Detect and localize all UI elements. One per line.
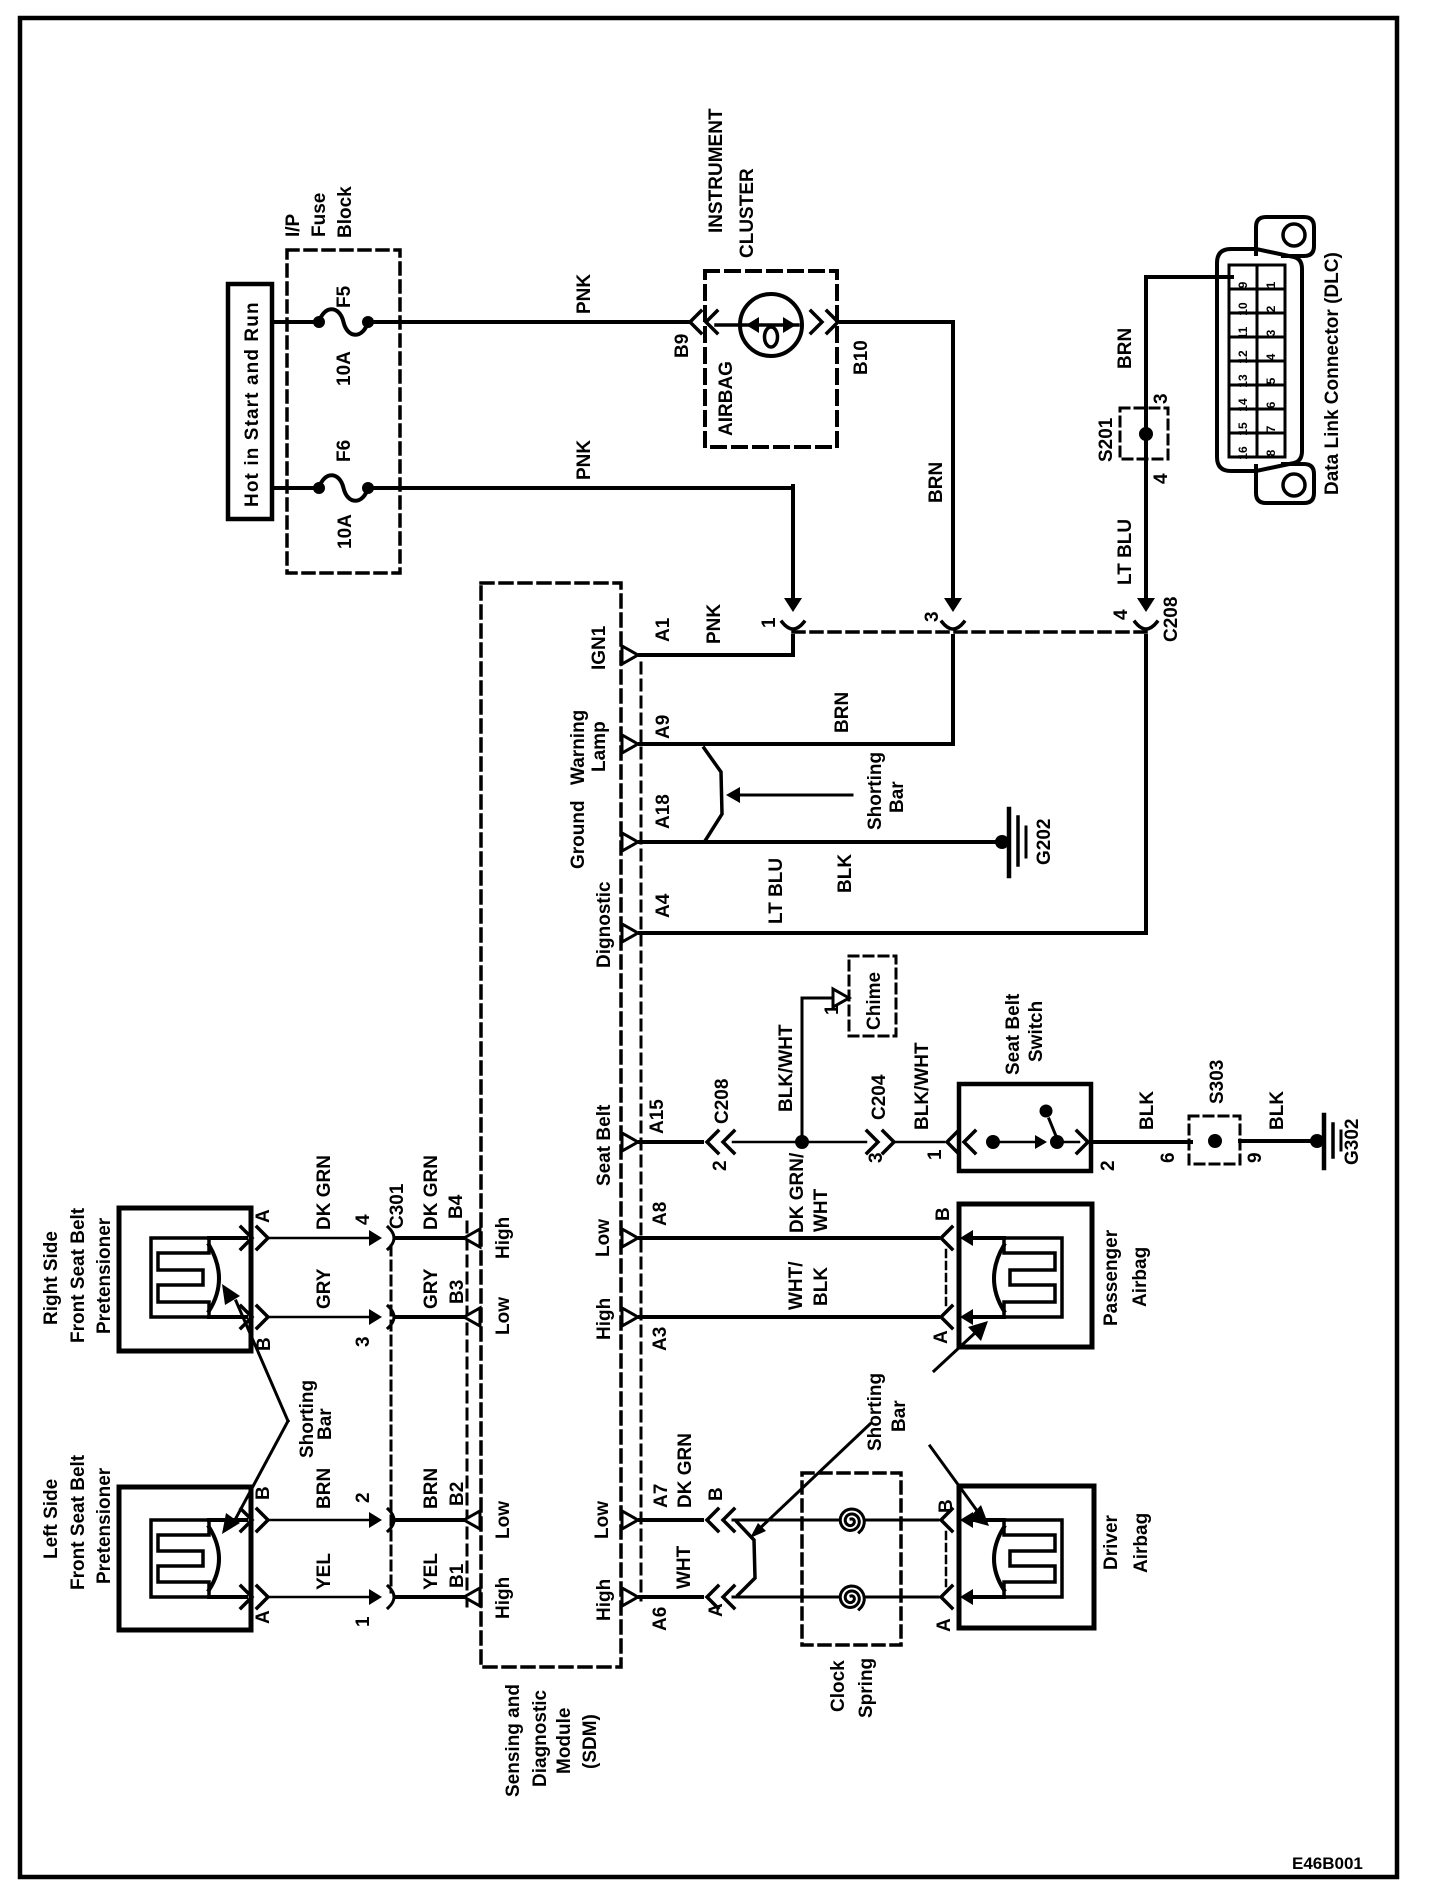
shorting bar at passenger airbag connector: [945, 1250, 948, 1306]
svg-text:A: A: [931, 1330, 952, 1344]
wire GRY: pretensioner B to C301 pin 3: [268, 1316, 371, 1319]
svg-text:(SDM): (SDM): [580, 1714, 601, 1769]
splice S303: [1189, 1116, 1240, 1164]
svg-text:4: 4: [353, 1214, 374, 1225]
svg-text:4: 4: [1111, 609, 1132, 620]
svg-text:PNK: PNK: [574, 440, 595, 480]
svg-text:Low: Low: [493, 1297, 514, 1335]
wire BRN: pretensioner B to C301 pin 2: [268, 1519, 371, 1522]
left pretensioner pin B: [241, 1509, 252, 1531]
svg-text:BLK/WHT: BLK/WHT: [776, 1024, 797, 1112]
svg-text:Lamp: Lamp: [589, 721, 610, 772]
svg-text:5: 5: [1264, 377, 1278, 384]
wire: DLC to S201 splice BRN: [1146, 275, 1232, 279]
SDM pin B3: [464, 1308, 480, 1326]
wire DK GRN/WHT: C208 to C204 with chime splice: [733, 1141, 866, 1144]
svg-text:Seat Belt: Seat Belt: [594, 1104, 615, 1186]
svg-text:C301: C301: [387, 1183, 408, 1229]
svg-text:2: 2: [1264, 305, 1278, 312]
fuse F6 10A: [313, 482, 325, 494]
svg-text:Clock: Clock: [828, 1660, 849, 1712]
svg-text:B4: B4: [446, 1194, 467, 1219]
svg-text:YEL: YEL: [314, 1553, 335, 1590]
svg-text:S303: S303: [1207, 1060, 1228, 1104]
svg-text:WHT/: WHT/: [786, 1261, 807, 1310]
svg-text:10A: 10A: [335, 514, 356, 549]
svg-text:Bar: Bar: [315, 1408, 336, 1440]
svg-text:PNK: PNK: [704, 604, 725, 644]
ground G202: [995, 835, 1009, 849]
right pretensioner squib: [151, 1238, 209, 1317]
Seat Belt Switch box: [959, 1084, 1091, 1171]
svg-text:GRY: GRY: [421, 1268, 442, 1309]
svg-text:BRN: BRN: [926, 462, 947, 503]
svg-text:Low: Low: [592, 1501, 613, 1539]
svg-text:B: B: [933, 1207, 954, 1221]
svg-text:Front Seat Belt: Front Seat Belt: [68, 1207, 89, 1343]
svg-text:Spring: Spring: [856, 1658, 877, 1718]
svg-text:Airbag: Airbag: [1131, 1513, 1152, 1573]
svg-text:9: 9: [1236, 281, 1250, 288]
svg-text:1: 1: [1264, 281, 1278, 288]
svg-text:IGN1: IGN1: [589, 625, 610, 670]
in-line connector C208 lower pin 2: [707, 1131, 718, 1153]
fuse F5 10A: [313, 316, 325, 328]
svg-text:7: 7: [1264, 425, 1278, 432]
wire BRN: B10 to C208 pin 3: [841, 320, 953, 324]
Right pretensioner box: [119, 1208, 251, 1351]
svg-text:B10: B10: [851, 340, 872, 375]
wire PNK: C208 pin1 to SDM A1 IGN1: [791, 636, 795, 655]
svg-text:Driver: Driver: [1101, 1514, 1122, 1570]
in-line connector C301: [390, 1246, 393, 1592]
Driver Airbag box: [959, 1486, 1094, 1628]
clock spring coil upper: [840, 1509, 864, 1532]
svg-text:B1: B1: [447, 1563, 468, 1588]
svg-text:13: 13: [1236, 374, 1250, 388]
svg-text:Passenger: Passenger: [1101, 1229, 1122, 1326]
svg-text:3: 3: [353, 1336, 374, 1347]
wire BRN: C208 pin3 to SDM A9: [951, 636, 955, 744]
wire WHT/BLK: A3 to Passenger Airbag A: [640, 1315, 938, 1319]
svg-text:Bar: Bar: [889, 1400, 910, 1432]
seat belt switch pin 2: [1077, 1131, 1088, 1153]
Passenger Airbag box: [959, 1204, 1092, 1347]
wire: Hot box to fuse F5: [272, 320, 315, 324]
Driver Airbag connector pin A: [941, 1586, 952, 1608]
svg-text:Airbag: Airbag: [1130, 1247, 1151, 1307]
connector pin B10: [811, 311, 822, 333]
driver airbag squib: [1004, 1520, 1062, 1597]
svg-text:Shorting: Shorting: [865, 752, 886, 830]
svg-text:2: 2: [1098, 1160, 1119, 1171]
svg-text:PNK: PNK: [574, 274, 595, 314]
SDM pin A9 Warning Lamp: [622, 735, 638, 753]
svg-text:Module: Module: [554, 1708, 575, 1775]
svg-text:E46B001: E46B001: [1292, 1854, 1363, 1873]
svg-text:F6: F6: [334, 440, 355, 462]
svg-text:Chime: Chime: [864, 972, 885, 1030]
svg-text:LT BLU: LT BLU: [1115, 519, 1136, 585]
svg-text:A: A: [706, 1603, 727, 1617]
svg-text:C204: C204: [869, 1074, 890, 1120]
svg-text:Diagnostic: Diagnostic: [530, 1689, 551, 1787]
svg-text:A18: A18: [653, 794, 674, 829]
seat belt switch pin 1: [947, 1131, 958, 1153]
Chime pin 1: [833, 989, 849, 1007]
wire: clock spring to driver airbag B: [865, 1519, 938, 1522]
SDM pin A15 Seat Belt: [622, 1133, 638, 1151]
instrument cluster box: [705, 271, 837, 447]
Clock Spring box: [802, 1473, 901, 1645]
C208 pin 3 junction: [944, 598, 962, 612]
right pretensioner pin A: [241, 1227, 252, 1249]
svg-text:I/P: I/P: [283, 213, 304, 237]
svg-text:Pretensioner: Pretensioner: [94, 1217, 115, 1334]
C208 pin 1 junction: [784, 598, 802, 612]
svg-text:B: B: [706, 1487, 727, 1501]
svg-text:Block: Block: [335, 186, 356, 238]
right pretensioner pin B: [241, 1306, 252, 1328]
C301 pin 2 junction: [369, 1512, 382, 1528]
shorting bar pointer to driver airbag: [930, 1446, 978, 1512]
svg-text:4: 4: [1151, 473, 1172, 484]
svg-text:Ground: Ground: [568, 800, 589, 869]
svg-text:Front Seat Belt: Front Seat Belt: [68, 1454, 89, 1590]
svg-text:Fuse: Fuse: [309, 193, 330, 237]
svg-text:AIRBAG: AIRBAG: [716, 361, 737, 436]
svg-text:A4: A4: [653, 893, 674, 918]
svg-text:WHT: WHT: [811, 1188, 832, 1232]
C301 pin 1 junction: [369, 1589, 382, 1605]
svg-text:A6: A6: [650, 1607, 671, 1631]
svg-text:Warning: Warning: [568, 710, 589, 785]
wire WHT... A7 chevrons: [640, 1518, 702, 1522]
clock spring coil lower: [840, 1586, 864, 1609]
svg-text:DK GRN: DK GRN: [421, 1155, 442, 1230]
wire BLK: A18 to G202: [640, 840, 998, 844]
svg-text:Pretensioner: Pretensioner: [94, 1467, 115, 1584]
shorting bar bracket between A7 and A6: [737, 1522, 755, 1595]
svg-text:Shorting: Shorting: [865, 1373, 886, 1451]
wire PNK: F5 to instrument cluster B9: [372, 320, 690, 324]
svg-text:BLK: BLK: [811, 1267, 832, 1306]
svg-text:CLUSTER: CLUSTER: [737, 168, 758, 258]
svg-text:B3: B3: [447, 1280, 468, 1304]
svg-text:BRN: BRN: [421, 1468, 442, 1509]
seat belt switch contacts: [986, 1135, 1000, 1149]
svg-text:BRN: BRN: [1115, 328, 1136, 369]
svg-text:BLK: BLK: [1267, 1091, 1288, 1130]
svg-text:A1: A1: [653, 617, 674, 642]
svg-text:1: 1: [353, 1616, 374, 1627]
svg-text:3: 3: [1151, 393, 1172, 404]
svg-text:S201: S201: [1096, 417, 1117, 462]
wire DK GRN/WHT: A8 to Passenger Airbag B: [640, 1236, 938, 1240]
svg-text:DK GRN: DK GRN: [314, 1155, 335, 1230]
svg-text:High: High: [493, 1577, 514, 1619]
svg-text:A: A: [934, 1618, 955, 1632]
svg-text:BLK: BLK: [1137, 1091, 1158, 1130]
SDM box: [481, 583, 621, 1667]
svg-text:B: B: [936, 1499, 957, 1513]
wire BLK: switch to S303: [1091, 1140, 1191, 1144]
svg-text:16: 16: [1236, 446, 1250, 460]
svg-text:10: 10: [1236, 302, 1250, 316]
svg-text:F5: F5: [334, 285, 355, 308]
SDM connector face right: [640, 663, 643, 1600]
svg-text:C208: C208: [1161, 597, 1182, 642]
svg-text:Seat Belt: Seat Belt: [1003, 993, 1024, 1075]
wire: A15 to C208 lower: [640, 1140, 702, 1144]
svg-text:G202: G202: [1034, 819, 1055, 865]
SDM connector face left: [466, 1222, 469, 1610]
svg-text:LT BLU: LT BLU: [766, 858, 787, 924]
shorting bar inside SDM connector A9-A18: [704, 748, 722, 841]
svg-text:Low: Low: [593, 1219, 614, 1257]
wire: clock spring to driver airbag A: [865, 1596, 938, 1599]
SDM pin A1 IGN1: [622, 646, 638, 664]
svg-text:Switch: Switch: [1026, 1001, 1047, 1062]
svg-text:G302: G302: [1342, 1119, 1363, 1165]
svg-text:15: 15: [1236, 422, 1250, 436]
svg-text:11: 11: [1236, 326, 1250, 339]
svg-text:A: A: [253, 1610, 274, 1624]
C301 pin 4 junction: [369, 1230, 382, 1246]
shorting bar pointer to bracket: [756, 1424, 870, 1532]
Chime box: [849, 956, 896, 1036]
svg-text:Sensing and: Sensing and: [503, 1684, 524, 1797]
svg-text:A7: A7: [651, 1484, 672, 1508]
svg-text:A8: A8: [650, 1202, 671, 1226]
Left pretensioner box: [119, 1487, 251, 1630]
svg-text:1: 1: [759, 617, 780, 628]
Passenger Airbag connector pin B: [941, 1227, 952, 1249]
shorting bar at driver airbag connector: [945, 1532, 948, 1586]
svg-text:6: 6: [1158, 1152, 1179, 1163]
svg-text:8: 8: [1264, 449, 1278, 456]
svg-text:Data Link Connector (DLC): Data Link Connector (DLC): [1322, 252, 1343, 495]
airbag warning lamp: [716, 323, 741, 327]
svg-text:Left Side: Left Side: [41, 1479, 62, 1559]
wire LT BLU: C208 pin4 to SDM A4: [1144, 636, 1148, 933]
svg-text:A: A: [253, 1209, 274, 1223]
SDM pin A3 High: [622, 1308, 638, 1326]
svg-text:GRY: GRY: [314, 1268, 335, 1309]
wire YEL: C301 to SDM B1: [396, 1595, 466, 1599]
svg-text:DK GRN/: DK GRN/: [787, 1152, 808, 1233]
left pretensioner squib: [151, 1520, 209, 1597]
Passenger Airbag connector pin A: [941, 1306, 952, 1328]
wire GRY: C301 to SDM B3: [396, 1315, 466, 1319]
svg-text:BRN: BRN: [314, 1468, 335, 1509]
svg-text:WHT: WHT: [674, 1545, 695, 1589]
svg-text:B9: B9: [672, 334, 693, 358]
wire DK GRN: to clock spring upper: [733, 1519, 838, 1522]
svg-text:Dignostic: Dignostic: [594, 881, 615, 968]
svg-text:1: 1: [822, 1004, 843, 1015]
svg-text:Hot in Start and Run: Hot in Start and Run: [242, 301, 263, 507]
shorting bar pointer arrow: [738, 794, 852, 797]
svg-text:2: 2: [353, 1492, 374, 1503]
svg-text:Bar: Bar: [887, 781, 908, 813]
svg-text:DK GRN: DK GRN: [675, 1433, 696, 1508]
SDM pin A18 Ground: [622, 833, 638, 851]
wire BLK/WHT: C204 to Seat Belt Switch: [896, 1141, 944, 1144]
svg-text:A9: A9: [653, 715, 674, 739]
svg-text:3: 3: [1264, 329, 1278, 336]
svg-text:12: 12: [1236, 350, 1250, 364]
wire PNK: F6 toward C208 pin 1: [372, 486, 793, 490]
svg-text:9: 9: [1245, 1152, 1266, 1163]
svg-text:2: 2: [710, 1160, 731, 1171]
SDM pin A8 Low: [622, 1229, 638, 1247]
svg-text:BLK/WHT: BLK/WHT: [912, 1042, 933, 1130]
svg-text:C208: C208: [712, 1079, 733, 1124]
svg-text:A3: A3: [650, 1327, 671, 1351]
splice S201: [1120, 408, 1168, 459]
svg-text:10A: 10A: [334, 351, 355, 386]
I/P fuse block box: [287, 250, 400, 573]
svg-text:Right Side: Right Side: [41, 1231, 62, 1325]
SDM pin A7 Low: [622, 1511, 638, 1529]
left pretensioner pin A: [241, 1586, 252, 1608]
wire WHT: to clock spring lower: [733, 1596, 838, 1599]
svg-text:14: 14: [1236, 398, 1250, 412]
wire WHT: A6 chevrons: [640, 1595, 702, 1599]
svg-text:High: High: [493, 1217, 514, 1259]
svg-text:Low: Low: [493, 1501, 514, 1539]
svg-text:B2: B2: [447, 1482, 468, 1506]
SDM pin B2: [464, 1511, 480, 1529]
wire BLK: S303 to G302: [1240, 1139, 1313, 1143]
svg-text:3: 3: [866, 1152, 887, 1163]
SDM pin A6 High: [622, 1588, 638, 1606]
SDM pin B1: [464, 1588, 480, 1606]
in-line connector C204 pin 3: [867, 1131, 878, 1153]
wire BLK/WHT: splice to Chime pin 1: [801, 998, 804, 1142]
wire: Hot box to fuse F6: [272, 486, 315, 490]
Data Link Connector DLC shell: [1256, 217, 1314, 256]
wire YEL: pretensioner A to C301 pin 1: [268, 1596, 371, 1599]
wire DK GRN: pretensioner A to C301 pin 4: [268, 1237, 371, 1240]
svg-text:6: 6: [1264, 401, 1278, 408]
connector pin B9: [690, 311, 701, 333]
svg-text:High: High: [594, 1298, 615, 1340]
shorting bar pointer to passenger airbag: [934, 1332, 976, 1371]
Driver Airbag connector pin B: [941, 1509, 952, 1531]
svg-text:BLK: BLK: [835, 854, 856, 893]
svg-text:High: High: [594, 1579, 615, 1621]
SDM pin B4: [464, 1229, 480, 1247]
svg-text:B: B: [253, 1486, 274, 1500]
svg-text:INSTRUMENT: INSTRUMENT: [706, 108, 727, 233]
svg-text:YEL: YEL: [421, 1553, 442, 1590]
power source box: Hot in Start and Run: [228, 284, 272, 519]
svg-text:3: 3: [922, 611, 943, 622]
svg-text:4: 4: [1264, 353, 1278, 360]
wire BRN: C301 to SDM B2: [396, 1518, 466, 1522]
in-line connector C208 upper: [793, 630, 1146, 634]
shorting bar pointer arrows (pretensioners): [236, 1301, 288, 1421]
svg-text:BRN: BRN: [832, 692, 853, 733]
svg-text:A15: A15: [647, 1099, 668, 1134]
svg-text:1: 1: [925, 1149, 946, 1160]
C208 pin 4 junction: [1137, 598, 1155, 612]
passenger airbag squib: [1004, 1238, 1062, 1317]
SDM pin A4 Dignostic: [622, 924, 638, 942]
ground G302: [1310, 1134, 1324, 1148]
wire DK GRN: C301 to SDM B4: [396, 1236, 466, 1240]
DLC pin grid: [1229, 265, 1285, 457]
C301 pin 3 junction: [369, 1309, 382, 1325]
